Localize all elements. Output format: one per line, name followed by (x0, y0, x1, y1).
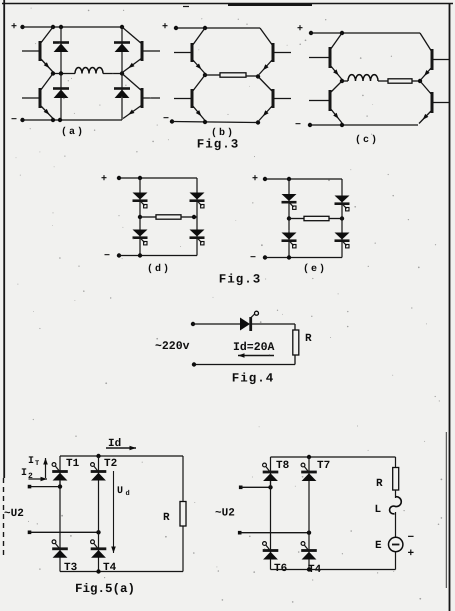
wire mid rail left (c) (342, 80, 348, 82)
wire left column Fig.5a upper (59, 456, 61, 487)
wire right column (d) (196, 178, 198, 256)
svg-text:~220v: ~220v (155, 340, 190, 353)
wire top rail Fig.5a (60, 455, 183, 457)
transistor Q1 (a) (22, 27, 53, 72)
svg-text:−: − (250, 253, 256, 264)
diode D4 (a) (114, 89, 130, 99)
wire bottom rail (d) (119, 255, 197, 257)
svg-text:−: − (408, 532, 415, 544)
wire bottom Fig.4 (194, 364, 295, 366)
wire mid rail left (a) (53, 73, 75, 75)
wire top rail (d) (119, 177, 197, 179)
thyristor Th3 (e) (282, 233, 297, 248)
transistor Q3 (b) (174, 75, 205, 121)
wire right column Fig.5a lower (98, 532, 100, 571)
thyristor Th3 (d) (133, 230, 148, 245)
wire mid rail left (b) (205, 74, 220, 76)
wire bottom rail (c) (310, 124, 418, 126)
node bottom-left (e) (287, 255, 291, 259)
wire top rail Fig.5b (271, 456, 396, 458)
wire right diode column bottom (a) (121, 74, 123, 121)
wire right branch Fig.5a (182, 456, 184, 572)
wire AC1 stub Fig.5a (30, 486, 61, 488)
node input bottom Fig.4 (192, 362, 196, 366)
svg-text:Fig.3: Fig.3 (219, 273, 262, 287)
thyristor Th4 (d) (190, 230, 205, 245)
wire mid rail right (a) (103, 73, 122, 75)
resistor R Fig.4 (293, 330, 299, 355)
node bottom-left (d) (138, 253, 142, 257)
thyristor T2 (91, 463, 107, 481)
wire T8 column upper Fig.5b (270, 457, 272, 487)
node mid-left (e) (287, 216, 291, 220)
transistor Q1 (c) (309, 33, 342, 80)
wire left diode column bottom (a) (60, 74, 62, 121)
svg-text:E: E (375, 540, 382, 552)
wire T8 column lower Fig.5b (270, 481, 272, 570)
node top-left (d) (138, 176, 142, 180)
wire T7 column Fig.5b (308, 457, 310, 570)
wire left column Fig.5a lower (59, 532, 61, 571)
svg-text:−: − (11, 115, 17, 126)
node T2 top Fig.5a (96, 454, 100, 458)
node AC1 junction Fig.5b (268, 485, 272, 489)
page border top (2, 3, 453, 5)
svg-text:+: + (11, 22, 17, 33)
node top-left (a) (51, 25, 55, 29)
thyristor Th1 (d) (133, 193, 148, 208)
svg-text:T4: T4 (103, 562, 117, 574)
wire bottom rail (e) (265, 257, 342, 259)
node mid-right (b) (256, 74, 260, 78)
thyristor T6 (263, 542, 279, 560)
node AC2 junction Fig.5b (307, 531, 311, 535)
node mid-right (c) (418, 79, 422, 83)
svg-text:+: + (101, 174, 107, 185)
transistor Q4 (b) (258, 77, 291, 121)
wire bottom rail (b) (172, 122, 258, 123)
node top-left (b) (203, 26, 207, 30)
svg-text:~U2: ~U2 (215, 508, 235, 520)
voltage arrow Ud Fig.5a (113, 471, 115, 553)
svg-text:Fig.5(a): Fig.5(a) (75, 582, 135, 596)
wire top rail (a) (23, 26, 123, 28)
wire mid rail middle (c) (378, 80, 388, 82)
current arrow IT Fig.5a (45, 458, 47, 478)
thyristor Th2 (e) (335, 196, 350, 211)
node mid-right (d) (192, 215, 196, 219)
page border right inner mark (445, 432, 447, 588)
node AC2 junction Fig.5a (96, 530, 100, 534)
svg-text:+: + (297, 24, 303, 35)
svg-text:T7: T7 (317, 460, 330, 472)
thyristor T7 (301, 463, 317, 481)
wire right column (e) (341, 179, 343, 258)
thyristor Th1 (e) (282, 194, 297, 209)
svg-text:I: I (28, 456, 34, 467)
transistor Q4 (a) (122, 74, 160, 119)
wire left column Fig.5a mid (59, 481, 61, 532)
svg-text:I: I (21, 468, 27, 479)
transistor Q2 (b) (259, 28, 291, 75)
svg-text:Fig.4: Fig.4 (232, 372, 275, 386)
svg-text:R: R (305, 333, 312, 345)
wire bottom rail Fig.5a (60, 571, 183, 573)
node top-left (c) (340, 31, 344, 35)
node bottom (a) (51, 118, 55, 122)
wire AC2 stub Fig.5a (30, 531, 99, 533)
resistor R (b) (220, 73, 246, 77)
wire right bottom Fig.4 (294, 355, 296, 365)
wire top rail (b) (176, 27, 260, 29)
node mid-left (b) (203, 73, 207, 77)
wire mid rail right (e) (329, 218, 342, 220)
wire right diode column top (a) (121, 27, 123, 74)
node T7 top Fig.5b (307, 455, 311, 459)
thyristor T3 (52, 540, 68, 558)
terminal AC1 Fig.5b (239, 486, 243, 490)
diode D3 (a) (114, 43, 130, 53)
terminal AC2 Fig.5a (28, 531, 32, 535)
svg-text:+: + (162, 22, 168, 33)
svg-text:L: L (375, 504, 382, 516)
svg-text:(d): (d) (147, 263, 171, 275)
page border top smudge (228, 4, 312, 6)
svg-text:R: R (163, 512, 170, 524)
node mid-right (e) (340, 216, 344, 220)
node mid-left (d) (138, 215, 142, 219)
svg-text:Id=20A: Id=20A (233, 341, 275, 354)
node mid-left (a) (51, 71, 55, 75)
resistor R (e) (304, 216, 329, 220)
wire left column bottom (d) (139, 217, 141, 256)
node bottom-right (b) (256, 120, 260, 124)
wire AC1 stub Fig.5b (241, 486, 271, 488)
wire mid rail right (c) (412, 80, 420, 82)
wire left diode column top (a) (60, 27, 62, 74)
svg-text:T2: T2 (104, 458, 117, 470)
wire right column Fig.5a upper (98, 456, 100, 532)
svg-text:−: − (104, 251, 110, 262)
svg-text:d: d (126, 489, 130, 498)
node bottom-left (c) (340, 123, 344, 127)
page border left (3, 0, 5, 478)
svg-text:T: T (35, 460, 39, 468)
wire top Fig.4 left (193, 323, 240, 325)
node mid-left (c) (340, 79, 344, 83)
terminal AC2 Fig.5b (238, 531, 242, 535)
thyristor T4 right (301, 542, 317, 560)
wire top rail (c) (311, 32, 420, 34)
node T4 bottom Fig.5a (96, 569, 100, 573)
node AC1 junction Fig.5a (58, 484, 62, 488)
svg-text:−: − (295, 120, 301, 131)
wire E to bottom Fig.5b (395, 552, 397, 570)
thyristor Fig.4 (240, 311, 259, 331)
svg-text:+: + (408, 548, 415, 560)
wire left column top (e) (288, 179, 290, 219)
wire mid rail right (d) (181, 216, 197, 218)
wire mid rail left (d) (140, 216, 156, 218)
node input top Fig.4 (191, 322, 195, 326)
inductor L (a) (75, 68, 103, 74)
wire right drop Fig.4 (294, 324, 296, 330)
svg-text:(e): (e) (303, 263, 327, 275)
node top-right (a) (120, 25, 124, 29)
svg-text:T1: T1 (66, 458, 80, 470)
svg-text:T8: T8 (276, 460, 290, 472)
node bottom-left (b) (203, 120, 207, 124)
inductor L Fig.5b (390, 497, 402, 514)
thyristor T8 (263, 463, 279, 481)
resistor R (c) (388, 79, 412, 83)
resistor R (d) (156, 215, 181, 219)
svg-text:(a): (a) (61, 126, 85, 138)
diode D1 (a) (53, 43, 69, 53)
wire mid rail right (b) (246, 75, 258, 77)
transistor Q3 (a) (122, 27, 160, 72)
svg-text:R: R (376, 478, 383, 490)
wire L to E Fig.5b (395, 512, 397, 537)
transistor Q2 (a) (22, 74, 53, 119)
svg-text:T3: T3 (64, 562, 78, 574)
node T4 bottom Fig.5b (307, 567, 311, 571)
transistor Q3 (c) (309, 81, 342, 123)
current arrow Id Fig.4 (238, 355, 274, 357)
transistor Q2 (c) (420, 33, 450, 80)
svg-text:(c): (c) (355, 134, 379, 146)
svg-text:−: − (163, 114, 169, 125)
page border right (449, 4, 451, 611)
wire top Fig.4 right (251, 323, 295, 325)
thyristor Th4 (e) (335, 233, 350, 248)
node mid-right (a) (120, 71, 124, 75)
thyristor Th2 (d) (190, 193, 205, 208)
wire left column bottom (e) (288, 219, 290, 258)
transistor Q1 (b) (174, 28, 205, 74)
wire mid rail left (e) (289, 218, 304, 220)
terminal AC1 Fig.5a (28, 485, 32, 489)
resistor R Fig.5a (180, 502, 186, 527)
resistor R Fig.5b (393, 468, 399, 491)
current arrow Id Fig.5a (106, 447, 136, 449)
source E Fig.5b (389, 537, 403, 551)
thyristor T1 (52, 463, 68, 481)
svg-text:Fig.3: Fig.3 (197, 138, 240, 152)
wire right branch top Fig.5b (395, 457, 397, 468)
svg-text:+: + (252, 174, 258, 185)
thyristor T4 (91, 540, 107, 558)
wire bottom rail Fig.5b (271, 569, 396, 571)
current arrow I2 Fig.5a (29, 478, 48, 480)
wire left column top (d) (139, 178, 141, 217)
wire top rail (e) (265, 178, 342, 180)
transistor Q4 (c) (419, 81, 450, 124)
inductor L (c) (348, 75, 378, 81)
diode D2 (a) (53, 89, 69, 99)
node top-left (e) (287, 177, 291, 181)
wire bottom rail (a) (23, 119, 123, 121)
wire AC2 stub Fig.5b (240, 532, 309, 534)
svg-text:U: U (117, 486, 123, 497)
wire R to L Fig.5b (395, 490, 397, 498)
svg-text:~U2: ~U2 (4, 508, 24, 520)
